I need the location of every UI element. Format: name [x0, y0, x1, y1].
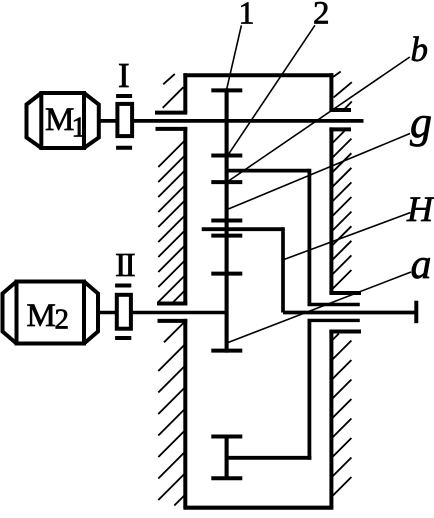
housing right wall lower [329, 330, 333, 508]
shaft I right opening top edge [329, 108, 351, 112]
shaft II left opening bottom edge [158, 319, 188, 323]
svg-text:I: I [118, 56, 130, 95]
coupling II top bar [115, 284, 131, 288]
coupling II bottom bar [115, 336, 131, 340]
ring b lower rim bottom tick [211, 476, 242, 480]
leader H [284, 213, 411, 260]
svg-text:M: M [27, 298, 56, 334]
hatching right wall [331, 72, 351, 498]
svg-text:2: 2 [55, 304, 70, 336]
ring gear b drum lower [307, 320, 311, 459]
shaft I right opening bottom edge [329, 127, 351, 131]
planet/sun mesh tick [211, 272, 242, 276]
leader 1 [227, 25, 242, 90]
hatching left wall [158, 74, 185, 506]
housing right wall upper [329, 73, 333, 110]
housing right wall middle [329, 127, 333, 293]
leader g [228, 134, 410, 210]
motor M1 body [27, 93, 99, 148]
svg-text:1: 1 [72, 112, 87, 144]
leader 2 [228, 25, 315, 155]
ring gear b web [227, 169, 310, 173]
carrier H vertical [281, 227, 285, 312]
shaft I left opening top edge [155, 111, 187, 115]
housing bottom wall [183, 506, 333, 510]
svg-text:H: H [406, 189, 434, 229]
gear2/ring b mesh tick [211, 180, 242, 184]
carrier H arm [202, 227, 283, 231]
svg-text:II: II [115, 247, 135, 284]
hollow shaft bottom line [308, 319, 360, 322]
shaft II left opening top edge [157, 302, 187, 306]
coupling I top bar [116, 94, 132, 98]
right wall lower top flange [329, 330, 361, 334]
svg-text:M: M [45, 102, 74, 138]
ring gear b lower web [227, 456, 312, 460]
gear1/gear2 mesh tick [211, 154, 242, 158]
planet bearing upper bar [211, 219, 242, 223]
housing left wall upper [183, 73, 187, 113]
coupling I body [117, 104, 132, 136]
svg-text:2: 2 [313, 0, 330, 32]
coupling I bottom bar [116, 146, 132, 150]
svg-text:b: b [411, 30, 429, 69]
housing left wall lower [183, 319, 187, 508]
sun a bottom tick [211, 349, 242, 353]
svg-text:a: a [411, 242, 432, 288]
shaft I [99, 119, 364, 123]
ring b lower rim top tick [211, 435, 242, 439]
leader b [228, 57, 410, 182]
coupling II body [117, 295, 131, 329]
housing top wall [183, 73, 333, 77]
shaft II [98, 311, 227, 315]
shaft I left opening bottom edge [156, 127, 188, 131]
leader a [227, 272, 411, 343]
motor M2 body [3, 282, 99, 344]
ring gear b lower rim line [225, 435, 229, 481]
output shaft end tick [414, 301, 418, 324]
planet bearing lower bar [211, 234, 242, 238]
gear train center line (gears 1,2, planet g, sun a) [225, 88, 229, 352]
right wall middle bottom flange [329, 291, 361, 295]
gear 1 top tick [211, 88, 242, 92]
hollow shaft top line [308, 303, 360, 307]
ring gear b drum upper [307, 169, 311, 305]
output shaft [283, 311, 416, 315]
svg-text:g: g [410, 98, 432, 147]
housing left wall middle [183, 127, 187, 306]
